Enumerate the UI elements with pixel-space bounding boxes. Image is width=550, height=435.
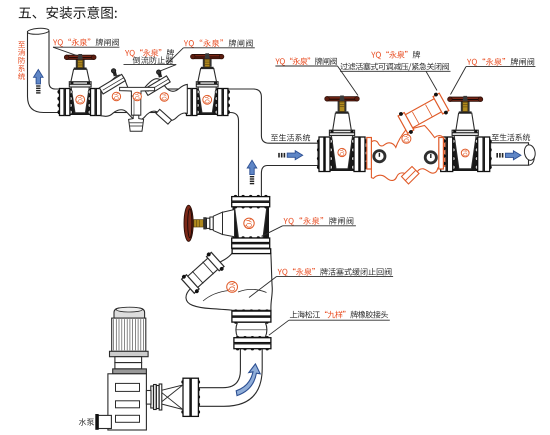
label: YQ 永泉 牌 (PRV line 1)	[371, 51, 420, 59]
pipe: elbow from riser to pump discharge line	[199, 348, 262, 406]
pressure gauge (PRV inlet)	[374, 151, 385, 162]
label: 倒流防止器 (BFP line 2)	[133, 56, 174, 63]
flow arrow up (fire riser)	[34, 70, 44, 94]
pump discharge stub	[146, 391, 151, 405]
pipe: domestic line segment between PRV and V4	[436, 143, 444, 165]
BFP drain stub	[156, 109, 172, 124]
gate valve V5 (YQ 永泉 闸阀, vertical on pump riser)	[184, 195, 270, 250]
label: YQ 永泉 牌活塞式缓闭止回阀	[278, 268, 392, 276]
pressure gauge (PRV outlet)	[425, 152, 436, 163]
BFP test cock knob 2	[157, 71, 162, 77]
label: 上海松江 九样 牌橡胶接头	[290, 311, 388, 319]
reducer cone with cross bracing (pump outlet connector)	[160, 385, 183, 410]
PRV piston cartridge (tilted)	[397, 91, 450, 135]
PRV mating flanges (orange)	[365, 139, 368, 142]
title 安装示意图	[19, 6, 117, 19]
label: 至消防系统 (to fire system)	[18, 41, 25, 47]
gate valve V1 (YQ 永泉 闸阀, fire line left)	[57, 54, 103, 116]
label: 水泵 (pump)	[79, 418, 94, 425]
label: YQ 永泉 牌闸阀 (V5)	[283, 217, 353, 225]
check valve 活塞式缓闭止回阀 body	[186, 253, 272, 310]
BFP check module 2	[144, 76, 170, 96]
pipe: fire riser and elbow to gate valve V1	[28, 32, 60, 113]
pump 水泵 (vertical multistage with motor)	[95, 307, 151, 430]
gate valve V3 (YQ 永泉 闸阀, domestic line left)	[317, 96, 367, 172]
BFP relief funnel and column	[120, 87, 155, 96]
label: 至生活系统 (right)	[492, 134, 530, 141]
label: YQ 永泉 牌闸阀 (V4)	[467, 58, 534, 66]
pipe: elbow down from V2, drop pipe and tee to domestic branch	[216, 89, 318, 199]
BFP check module 1	[99, 74, 125, 94]
flow arrow: curved up through elbow	[236, 364, 260, 396]
pump suction stub and flange	[98, 415, 111, 428]
pipe: top run under backflow preventer	[99, 89, 189, 113]
backflow preventer 倒流防止器 body	[101, 75, 187, 121]
pipe: drop from gate valve V5 to check valve	[240, 248, 262, 256]
flange bar: check valve inlet (mates V5 bottom flange)	[235, 250, 238, 253]
BFP relief valve	[129, 115, 144, 131]
flange pair on pump discharge line	[181, 378, 200, 416]
label: 过滤活塞式可调减压/紧急关闭阀 (PRV line 2)	[340, 63, 449, 71]
flow arrow up (pump riser)	[247, 160, 257, 184]
label: YQ 永泉 牌闸阀 (V2)	[184, 39, 253, 47]
gate valve V4 (YQ 永泉 闸阀, domestic line right)	[439, 96, 492, 172]
BFP test cock knob 1	[112, 70, 117, 76]
pressure reducing / emergency shutoff valve (orange) body	[365, 91, 450, 184]
flow arrow right (to domestic, before V3)	[278, 151, 303, 160]
pipe: domestic line segment between V3 and PRV	[364, 143, 372, 165]
BFP brand circles YQ	[112, 92, 120, 100]
label: 至生活系统 (left)	[271, 134, 310, 141]
pipe: domestic line outlet with open end	[491, 143, 529, 165]
label: YQ 永泉 牌 (BFP line 1)	[125, 49, 174, 57]
PRV bottom drain	[402, 167, 420, 185]
gate valve V2 (YQ 永泉 闸阀, fire line right)	[184, 53, 230, 115]
check valve piston cartridge	[180, 251, 225, 295]
label: YQ 永泉 牌闸阀 (V3)	[275, 57, 336, 65]
flow arrow right (domestic outlet)	[496, 151, 521, 160]
bellows rings	[151, 384, 162, 410]
label: YQ 永泉 牌闸阀 (V1)	[53, 38, 119, 46]
rubber joint 上海松江 九样 橡胶接头	[232, 309, 271, 350]
